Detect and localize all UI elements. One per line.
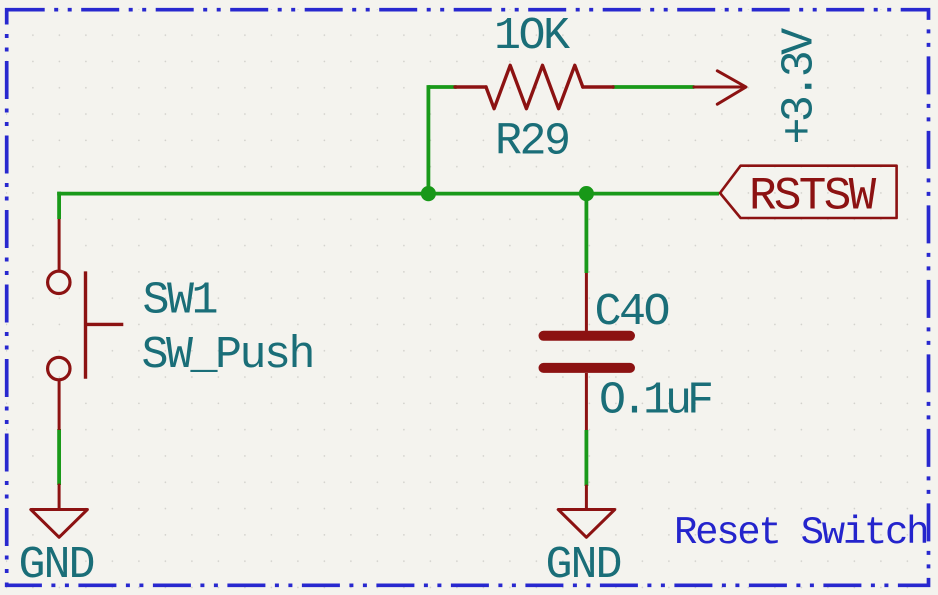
junction at capacitor branch xyxy=(579,186,594,201)
wire: resistor left corner horizontal segment xyxy=(428,85,456,89)
svg-text:O.1uF: O.1uF xyxy=(599,376,711,427)
svg-text:R29: R29 xyxy=(495,117,569,168)
wire: resistor right to power arrow xyxy=(613,85,695,89)
svg-text:C4O: C4O xyxy=(595,287,669,338)
resistor R29 xyxy=(455,65,613,108)
svg-text:GND: GND xyxy=(546,540,621,591)
junction at resistor branch xyxy=(421,186,436,201)
power symbol +3.3V xyxy=(694,71,746,104)
wire: left vertical to switch xyxy=(57,192,61,219)
ground symbol right (below C40) xyxy=(558,486,615,537)
svg-text:GND: GND xyxy=(19,540,94,591)
svg-text:RSTSW: RSTSW xyxy=(749,171,877,223)
capacitor C40 pin 1 xyxy=(585,273,588,331)
net label RSTSW (flag outline) xyxy=(720,166,897,218)
svg-text:1OK: 1OK xyxy=(494,11,570,62)
wire: vertical from resistor left lead down to junction xyxy=(426,85,430,194)
switch SW1 pin 1 xyxy=(58,219,61,271)
svg-text:SW_Push: SW_Push xyxy=(142,330,314,381)
switch SW1 actuator stem xyxy=(86,323,124,326)
svg-text:SW1: SW1 xyxy=(143,276,217,327)
wire: below capacitor to GND xyxy=(585,430,589,486)
wire: junction down to capacitor xyxy=(585,194,589,273)
wire: below switch to GND xyxy=(57,429,61,485)
capacitor C40 plate 2 xyxy=(544,363,631,373)
ground symbol left (below SW1) xyxy=(31,485,88,537)
switch SW1 pin 2 xyxy=(58,380,61,430)
switch SW1 contact circle 2 xyxy=(48,357,70,379)
capacitor C40 plate 1 xyxy=(544,331,631,341)
svg-text:Reset Switch: Reset Switch xyxy=(674,511,927,555)
capacitor C40 pin 2 xyxy=(585,373,588,430)
wire: horizontal main net RSTSW xyxy=(57,192,719,196)
svg-text:+3.3V: +3.3V xyxy=(774,28,825,145)
switch SW1 actuator bar xyxy=(84,271,87,378)
switch SW1 contact circle 1 xyxy=(48,271,70,293)
